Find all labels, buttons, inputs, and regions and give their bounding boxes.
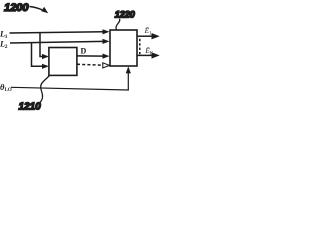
arrowhead D into U1220 xyxy=(103,54,110,59)
label L1 xyxy=(0,29,8,41)
wire D output xyxy=(77,55,104,57)
leader line for 1220 xyxy=(116,19,120,30)
wire output EK xyxy=(138,54,154,56)
open arrowhead into U1220 xyxy=(103,63,110,68)
box 1210 (estimator) xyxy=(49,48,77,76)
wire L1 xyxy=(10,32,104,33)
wire output E1 xyxy=(138,35,154,37)
dashed wire aux output xyxy=(77,63,104,66)
arrowhead L1 into U1220 xyxy=(103,29,110,34)
svg-text:2: 2 xyxy=(5,44,8,50)
label theta_LO xyxy=(0,82,12,93)
label E1 (hat) xyxy=(144,26,152,37)
arrowhead into estimator box lower input xyxy=(42,64,49,69)
leader line for 1210 xyxy=(38,76,49,105)
wire tap from L1 down at x40 xyxy=(40,33,44,57)
svg-text:LO: LO xyxy=(5,88,12,93)
svg-text:1210: 1210 xyxy=(19,102,42,113)
wire theta_LO xyxy=(11,73,128,91)
arrowhead L2 into U1220 xyxy=(103,39,110,44)
svg-text:K: K xyxy=(150,51,154,56)
svg-text:1200: 1200 xyxy=(4,2,29,14)
svg-text:1220: 1220 xyxy=(115,9,136,20)
arrowhead E1 xyxy=(152,33,160,39)
wire tap from L2 down at x31.5 xyxy=(32,43,44,67)
leader arrow for 1200 xyxy=(30,7,43,10)
svg-text:1: 1 xyxy=(5,34,8,40)
label L2 xyxy=(0,39,8,51)
dashed continuation between outputs xyxy=(139,39,141,54)
box 1220 xyxy=(110,30,137,66)
label EK (hat) xyxy=(144,46,153,57)
svg-text:D: D xyxy=(81,47,87,56)
arrowhead EK xyxy=(152,52,160,58)
wire L2 xyxy=(10,41,104,43)
arrowhead theta into bottom of U1220 xyxy=(126,66,131,73)
arrowhead into estimator box upper input xyxy=(42,54,49,59)
